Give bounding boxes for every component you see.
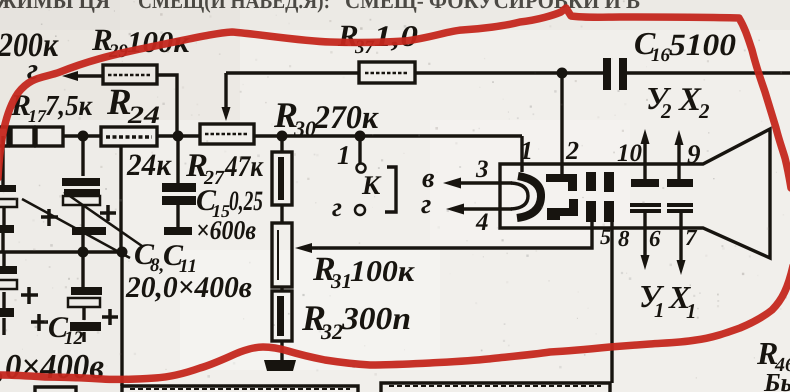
grid bracket top [546,174,577,191]
label R29 100k [91,22,190,62]
svg-text:СМЕЩ- ФОКУСИРОВКИ И В: СМЕЩ- ФОКУСИРОВКИ И В [345,0,640,13]
resistor R30 [272,152,292,205]
wire down bus x=122 [120,252,123,386]
label C8,C11 [134,238,197,277]
wire pin3 with arrow [456,181,512,184]
node B (83,136) [78,131,89,142]
deflection plate X1 [667,203,693,207]
label C16 5100 [634,25,736,66]
label R30 270k [273,95,379,141]
pin 8 lead down [610,222,613,383]
callout leader lines C8,C11 [22,192,142,258]
capacitor C9 (left edge bottom) [2,252,5,335]
label R31 100k [312,251,415,293]
label Y1 [639,278,665,322]
anode bar A [586,172,596,191]
wire main row y=136 [8,134,522,137]
label X2 [678,82,710,123]
capacitor C8 (left edge) [3,136,4,252]
pin 6 lead [643,212,646,257]
label Y2 [646,80,672,123]
capacitor C11 [81,136,84,252]
svg-text:10: 10 [617,140,643,167]
terminal 2 [355,205,365,215]
svg-text:Бы: Бы [763,368,790,392]
svg-text:31: 31 [330,269,352,293]
wire R27 wiper from top bus [224,73,227,108]
svg-text:1: 1 [654,298,665,322]
label R46 (cut) [756,335,790,376]
node (122,252) [117,247,128,258]
svg-text:30: 30 [293,116,316,141]
plus C12 [102,309,118,325]
resistor R31 (pot) [272,223,292,287]
svg-text:ЖИМЫ ЦЯ: ЖИМЫ ЦЯ [0,0,110,13]
svg-text:24к: 24к [126,147,172,182]
heater filament [517,176,541,218]
plus C9b [21,287,38,304]
resistor R16 [11,127,34,146]
svg-text:8: 8 [618,226,630,251]
plus C8 [41,209,58,226]
CRT envelope U1 [500,129,770,258]
svg-text:7,5к: 7,5к [45,90,93,122]
svg-text:12: 12 [64,328,84,349]
node R30 (282,136) [277,131,288,142]
svg-text:3: 3 [475,156,489,183]
resistor (edge, partial) [0,127,8,146]
svg-text:300п: 300п [341,300,411,336]
connector bracket [385,167,396,212]
label R17 7,5k [10,89,93,126]
svg-text:2: 2 [660,99,672,123]
red marker loop bottom-right [0,266,790,379]
svg-text:г: г [421,189,431,220]
svg-text:г: г [332,192,342,222]
capacitor C16 plates [603,58,611,90]
svg-text:270к: 270к [313,100,379,136]
svg-text:20,0×400в: 20,0×400в [125,271,252,304]
label R37 1,0 [337,18,418,58]
svg-text:1: 1 [337,140,351,170]
capacitor C15 branch [176,136,179,228]
wire top bus y=73 [226,71,790,74]
svg-text:5100: 5100 [669,27,736,62]
resistor R17 [36,127,63,146]
svg-text:6: 6 [649,226,661,251]
svg-text:1: 1 [520,136,533,165]
wire R29 left with arrow [75,74,103,77]
label R24 [106,82,160,129]
pin 10 lead [643,142,646,179]
node K (360,136) [355,131,366,142]
deflection plate X2 [667,179,693,187]
svg-text:2: 2 [565,136,579,165]
label C15 0,25 [196,184,263,221]
deflection plate Y2 [631,179,659,187]
wire to terminal 1 [358,136,361,163]
svg-text:24: 24 [127,102,160,129]
svg-text:СМЕЩ(И НАВЕД.Я):: СМЕЩ(И НАВЕД.Я): [138,0,330,13]
heater loop [511,183,528,209]
svg-text:×600в: ×600в [196,215,256,245]
resistor R29 box [103,65,157,84]
plus C9 [31,314,48,331]
svg-text:4: 4 [475,209,489,236]
pin 9 lead [677,143,680,179]
svg-text:9: 9 [687,139,701,169]
deflection plate Y1 [630,203,661,207]
wire pin2 drop from node [560,73,563,176]
svg-text:5: 5 [600,224,611,249]
label X1 [668,279,697,323]
svg-text:0,25: 0,25 [229,186,263,217]
resistor R24 [101,127,157,146]
terminal 1 [357,164,366,173]
resistor R32 [272,291,292,341]
label R32 300p [301,298,411,344]
red marker loop top-left [0,8,790,188]
node C16 (562,73) [557,68,568,79]
wire stem [280,287,283,291]
node A (178,136) [173,131,184,142]
bottom cut box 1 [122,386,358,392]
label R27 47k [185,148,264,189]
svg-text:32: 32 [320,319,343,344]
ground [264,360,296,371]
bottom cut box 2 [381,383,610,392]
wire chain stem [280,136,283,152]
wire pin4 with arrow [459,207,512,210]
title caption (cut off at top) [0,0,640,13]
plus C11 [100,205,116,221]
wire R29 right down to node [157,75,177,136]
node (83,252) [78,247,89,258]
wire stem to ground [280,341,283,360]
wire rail y=252 [0,250,122,253]
wire R31 wiper to pin5 [305,222,592,248]
wire pin1 drop [520,136,523,172]
svg-text:1: 1 [686,299,697,323]
svg-text:К: К [361,170,382,200]
resistor R37 [359,62,415,83]
resistor R27 (pot body) [200,124,254,144]
grid bracket bottom [547,199,578,216]
anode bar B [604,172,614,192]
wire stem [280,205,283,223]
svg-text:2: 2 [698,99,710,123]
svg-text:16: 16 [651,45,671,66]
label C12 [48,311,84,349]
capacitor C12 [83,252,84,342]
wire R24 tap down [119,146,122,252]
bottom cut box 0 [35,387,76,392]
svg-text:7: 7 [685,225,698,250]
pin 7 lead [679,212,682,262]
